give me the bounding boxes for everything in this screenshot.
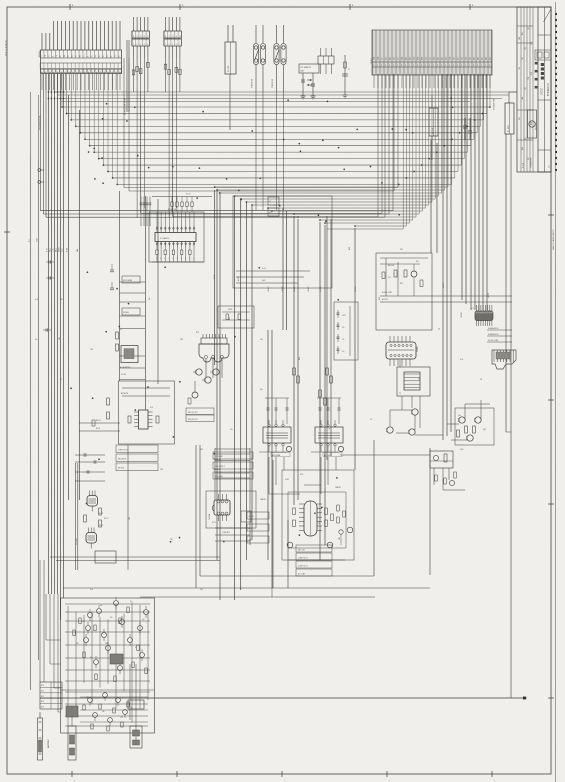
connector CN101 pins: [40, 21, 122, 74]
bus wire: [108, 171, 458, 173]
svg-text:B+ 6V: B+ 6V: [262, 268, 266, 270]
bus wire: [103, 164, 461, 166]
IC6 dark body: [110, 654, 123, 664]
transistors right-mid: [387, 409, 481, 441]
svg-text:5: 5: [425, 65, 426, 67]
svg-text:3: 3: [381, 65, 382, 67]
svg-text:0.01: 0.01: [90, 589, 93, 591]
svg-text:R 4.7K: R 4.7K: [99, 513, 103, 515]
bus wire: [99, 158, 465, 160]
svg-text:2: 2: [377, 65, 378, 67]
svg-text:WGB: WGB: [418, 57, 420, 60]
sub-board box right: [376, 253, 432, 330]
svg-text:BY: BY: [91, 55, 93, 57]
svg-text:0.01: 0.01: [35, 299, 38, 301]
diode-resistor drops under CN102 CN103: [132, 58, 181, 92]
svg-text:R: R: [177, 258, 178, 260]
bus wire: [85, 138, 474, 140]
left bus vertical: [54, 74, 56, 594]
svg-text:100: 100: [100, 605, 103, 607]
svg-text:R: R: [193, 258, 194, 260]
battery board box: [61, 598, 155, 733]
svg-text:4.7: 4.7: [370, 419, 372, 421]
svg-text:2SB: 2SB: [105, 643, 108, 645]
svg-text:MIC MUTE: MIC MUTE: [118, 459, 126, 461]
wires into battery board: [40, 560, 61, 712]
center-bottom inner box: [288, 492, 346, 548]
bus wire top: [57, 94, 509, 96]
svg-text:7: 7: [469, 65, 470, 67]
svg-text:BT0: BT0: [41, 685, 44, 687]
bus drop: [470, 74, 472, 146]
bus wire: [67, 112, 487, 114]
bus wire: [124, 187, 398, 189]
bottom border tick: [72, 771, 76, 782]
bus run wire: [268, 207, 426, 209]
svg-text:4.7: 4.7: [135, 647, 137, 649]
bus vertical: [482, 74, 484, 310]
svg-text:MADE IN JAPAN SANYO: MADE IN JAPAN SANYO: [552, 229, 555, 250]
svg-text:4: 4: [457, 65, 458, 67]
right border tick: [548, 399, 554, 401]
bus run drop: [405, 74, 407, 226]
svg-text:2SC1384: 2SC1384: [209, 514, 211, 520]
svg-text:TO MAIN PWB: TO MAIN PWB: [493, 98, 496, 110]
net labels left bus: [29, 238, 80, 252]
svg-text:0.01: 0.01: [460, 359, 463, 361]
bus vertical: [442, 74, 444, 440]
svg-text:COMP OUT 1: COMP OUT 1: [298, 558, 308, 560]
IC2 dark body: [475, 305, 493, 326]
bus drop: [392, 74, 394, 211]
svg-text:6: 6: [465, 65, 466, 67]
bus drop: [483, 74, 485, 120]
connector CN104 wire down: [229, 74, 231, 130]
vertical x430: [429, 448, 431, 575]
svg-text:DC IN DET: DC IN DET: [215, 476, 223, 478]
IC1 bottom rail: [152, 261, 204, 263]
svg-text:RY1: RY1: [196, 332, 199, 334]
svg-text:K.SENSOR IN: K.SENSOR IN: [488, 334, 499, 336]
svg-text:WRG: WRG: [422, 57, 424, 60]
svg-text:10K: 10K: [76, 643, 79, 645]
bus vertical: [324, 225, 326, 545]
bus run wire: [294, 213, 419, 215]
svg-text:220: 220: [170, 539, 173, 541]
drops to IC1 area: [137, 92, 176, 218]
connector CN102: [132, 17, 150, 58]
sensor unit cluster: [299, 64, 319, 99]
svg-text:47u: 47u: [230, 429, 233, 431]
cluster parts right: [435, 472, 457, 486]
svg-text:R: R: [160, 258, 161, 260]
switch drops: [256, 92, 303, 210]
IC1 pin wires: [157, 212, 194, 226]
labels left of IC5: [247, 512, 269, 543]
svg-text:REG 5V OUT: REG 5V OUT: [188, 412, 198, 414]
bus run wire: [235, 195, 439, 197]
connector CN205 body: [505, 103, 514, 134]
bus drop: [397, 74, 399, 188]
horizontal y560: [288, 559, 345, 561]
svg-text:4.7: 4.7: [60, 379, 62, 381]
svg-text:YB: YB: [99, 55, 101, 57]
parts around IC5: [287, 508, 353, 548]
bus wire: [113, 177, 455, 179]
connector CN104 body: [225, 42, 236, 74]
svg-text:2: 2: [137, 44, 138, 46]
svg-text:R42 10K: R42 10K: [214, 469, 221, 471]
svg-text:SP OUT: SP OUT: [249, 516, 255, 518]
svg-text:R 4.7K: R 4.7K: [104, 518, 108, 520]
svg-text:5: 5: [389, 65, 390, 67]
right transistor box: [455, 408, 494, 445]
bus riser: [123, 58, 125, 188]
bus vertical: [219, 192, 221, 600]
transformer block T4 Q9: [311, 398, 344, 457]
top border tick L: [180, 4, 184, 10]
right border tick: [548, 503, 554, 505]
bus drop: [486, 74, 488, 113]
resistors above IC1: [171, 197, 193, 213]
bus wire: [62, 106, 490, 108]
center-bottom boundary box: [282, 470, 354, 560]
svg-text:NC RD BL WH YE GR: NC RD BL WH YE GR: [125, 97, 127, 115]
svg-text:BT2: BT2: [41, 696, 44, 698]
bus vertical: [465, 74, 467, 304]
svg-text:47u: 47u: [35, 339, 38, 341]
pin drop deep: [45, 74, 47, 217]
battery board inner line: [61, 689, 155, 691]
bus riser: [84, 74, 86, 139]
bus vertical: [319, 222, 321, 560]
svg-text:1: 1: [373, 65, 374, 67]
battery B1 symbol: [38, 712, 43, 760]
bus wire top: [59, 98, 502, 100]
svg-text:9: 9: [405, 65, 406, 67]
svg-text:0.01: 0.01: [299, 357, 301, 360]
left bus junction dots: [48, 91, 64, 99]
svg-text:+B REG: +B REG: [461, 311, 463, 318]
wire CN205 down 2: [505, 134, 507, 432]
svg-text:T1: T1: [399, 393, 401, 395]
relay RY1 body: [199, 334, 229, 362]
right border tick: [548, 697, 554, 699]
bus drop: [479, 74, 481, 126]
svg-text:IC3: IC3: [150, 407, 153, 409]
svg-text:CN301: CN301: [417, 347, 419, 352]
svg-text:C21: C21: [388, 277, 391, 279]
label rows mid-left: [116, 445, 158, 471]
svg-text:DET OUT: DET OUT: [298, 550, 305, 552]
svg-text:IC2: IC2: [471, 308, 474, 310]
bus riser: [61, 74, 63, 107]
bus wire low: [46, 216, 385, 218]
svg-text:REG 5V OUT: REG 5V OUT: [188, 419, 198, 421]
svg-text:IC1 LA4520: IC1 LA4520: [160, 237, 169, 240]
svg-text:B: B: [133, 36, 134, 38]
bus wire: [90, 145, 471, 147]
svg-text:5V REG: 5V REG: [123, 312, 130, 314]
svg-text:4.7: 4.7: [250, 539, 252, 541]
svg-text:7: 7: [397, 65, 398, 67]
left mid box: [95, 551, 116, 563]
svg-text:R: R: [164, 258, 165, 260]
svg-text:BB3: BB3: [519, 117, 521, 120]
svg-text:DC IN DET: DC IN DET: [215, 456, 223, 458]
svg-text:+B REG: +B REG: [355, 285, 357, 292]
left bus vertical: [68, 95, 70, 500]
svg-text:WYL: WYL: [458, 57, 460, 60]
svg-text:Q31: Q31: [458, 415, 461, 417]
relay RY1 wires: [206, 359, 222, 378]
svg-text:3CB: 3CB: [519, 67, 521, 70]
svg-text:9: 9: [477, 65, 478, 67]
regulator cluster: [380, 258, 512, 302]
CN101 pin drop stubs: [42, 74, 120, 91]
top border tick L: [70, 4, 74, 10]
svg-text:47u: 47u: [342, 351, 345, 353]
switch S2: [274, 25, 286, 92]
svg-text:2: 2: [485, 65, 486, 67]
svg-text:R: R: [156, 258, 157, 260]
svg-text:R41 4.7K: R41 4.7K: [214, 459, 222, 461]
IC4 bottom rails: [215, 528, 250, 541]
off-page hooks: [38, 169, 44, 184]
run riser: [140, 92, 142, 214]
svg-text:RWK: RWK: [486, 57, 488, 60]
svg-text:POWER SW: POWER SW: [272, 78, 274, 88]
left bus vertical: [51, 74, 53, 594]
wire CN205 up: [509, 92, 517, 103]
wire far-left top: [30, 92, 32, 155]
svg-text:47u: 47u: [60, 299, 63, 301]
svg-text:K.SENSOR IN: K.SENSOR IN: [488, 328, 499, 330]
svg-text:1: 1: [409, 65, 410, 67]
svg-text:RGK: RGK: [386, 57, 388, 60]
svg-text:YRR: YRR: [454, 57, 456, 60]
bus run wire: [327, 228, 403, 230]
top border tick L: [470, 4, 474, 10]
IC1 pin wires bottom: [156, 247, 194, 262]
svg-text:+B REG: +B REG: [320, 285, 322, 292]
svg-text:BYY: BYY: [398, 57, 400, 60]
bus run drop: [444, 74, 446, 190]
svg-text:6: 6: [429, 65, 430, 67]
bus vertical: [214, 190, 216, 365]
IC4 quad body: [212, 494, 230, 524]
parts column mid-top: [342, 55, 350, 98]
bus vertical: [234, 196, 236, 600]
svg-text:COMP OUT 1: COMP OUT 1: [298, 566, 308, 568]
border outer right line: [555, 2, 557, 782]
svg-text:C1: C1: [348, 69, 350, 71]
svg-text:B.CHG CONT: B.CHG CONT: [382, 292, 392, 294]
CN201 pin drop stubs: [374, 74, 490, 88]
extension box parts: [80, 693, 148, 731]
bus vertical: [450, 74, 452, 432]
svg-text:1: 1: [481, 65, 482, 67]
svg-text:R9 1K: R9 1K: [96, 428, 100, 430]
svg-text:RL: RL: [111, 55, 113, 57]
bus drop: [384, 74, 386, 217]
bus riser: [128, 58, 130, 191]
svg-text:47u: 47u: [130, 601, 133, 603]
cluster above relay: [218, 306, 254, 328]
connector CN201 pins: [373, 30, 492, 75]
bus run wire: [246, 201, 432, 203]
bus run drop: [437, 74, 439, 196]
lines y557: [50, 557, 220, 561]
center box rails: [236, 268, 310, 283]
bus riser: [112, 74, 114, 178]
bus run drop: [428, 74, 430, 205]
svg-text:0.01: 0.01: [379, 297, 381, 300]
svg-text:MIC AMP: MIC AMP: [75, 537, 78, 545]
svg-text:IC5: IC5: [319, 521, 321, 524]
svg-text:BT90R#2-31: BT90R#2-31: [548, 82, 550, 96]
bottom border tick: [387, 771, 391, 782]
svg-text:B+ CONT: B+ CONT: [298, 574, 305, 576]
bus run wire: [272, 210, 422, 212]
svg-text:4: 4: [421, 65, 422, 67]
transistors Q10 Q11 left: [76, 445, 128, 570]
IC5 oval body: [299, 501, 322, 536]
svg-text:GY: GY: [48, 55, 50, 57]
svg-text:+B SW: +B SW: [214, 275, 216, 280]
resistors on verticals: [293, 368, 333, 405]
left bus vertical: [63, 74, 65, 598]
title block stamp box: [528, 110, 537, 138]
svg-text:BATTERY: BATTERY: [47, 738, 50, 748]
svg-text:B.T SENSOR: B.T SENSOR: [301, 67, 312, 69]
bus vertical: [436, 143, 438, 253]
svg-text:KKB: KKB: [462, 57, 464, 60]
svg-text:0.01: 0.01: [229, 317, 231, 320]
transistor Q12: [188, 381, 198, 404]
bus run drop: [412, 74, 414, 220]
svg-text:R: R: [169, 258, 170, 260]
bus run drop: [421, 74, 423, 211]
net labels vertical: [214, 275, 490, 318]
svg-text:YYL: YYL: [382, 57, 384, 60]
bus wire: [117, 183, 451, 185]
bus riser: [66, 74, 68, 113]
svg-text:R: R: [185, 258, 186, 260]
bus wire low: [44, 213, 390, 215]
op-amp IC1 body: [155, 226, 196, 247]
svg-text:4: 4: [176, 44, 177, 46]
svg-text:COMP M R: COMP M R: [222, 532, 231, 534]
left bus vertical: [60, 74, 62, 620]
svg-text:1B1: 1B1: [528, 27, 530, 30]
bus riser: [102, 74, 104, 165]
svg-text:3: 3: [489, 65, 490, 67]
bus run wire: [215, 186, 448, 188]
title marks extra: [535, 62, 551, 168]
battery table: [40, 682, 62, 709]
vertical x288: [287, 520, 289, 588]
svg-text:R: R: [173, 258, 174, 260]
relay box RB1: [430, 451, 453, 468]
left bus vertical: [78, 110, 80, 500]
svg-text:BWL: BWL: [406, 57, 408, 60]
arrow mark a2: [307, 84, 312, 86]
right transistor labels: [458, 415, 486, 451]
connector CN301 scalloped: [386, 336, 416, 366]
sub-board box left-mid: [119, 381, 175, 444]
bottom border tick: [282, 771, 286, 782]
bus vertical: [245, 202, 247, 560]
wire y597: [140, 596, 375, 598]
connector CN104 pin up: [227, 25, 229, 42]
svg-text:2: 2: [413, 65, 414, 67]
bottom cluster parts: [128, 664, 144, 748]
connector CN105: [318, 48, 334, 74]
title block stamp marks: [535, 50, 551, 60]
connector CN103: [164, 17, 182, 58]
svg-text:9: 9: [441, 65, 442, 67]
svg-text:YG: YG: [76, 55, 78, 57]
svg-text:BGG: BGG: [446, 57, 448, 60]
svg-text:BT3: BT3: [41, 701, 44, 703]
battery board parts: [65, 597, 150, 726]
svg-text:3: 3: [417, 65, 418, 67]
svg-text:R: R: [181, 258, 182, 260]
bus vertical: [282, 208, 284, 330]
bus drop: [489, 74, 491, 107]
bus run wire: [252, 204, 429, 206]
rails above IC4: [214, 448, 250, 545]
svg-text:+B REG: +B REG: [282, 285, 284, 292]
bus wire: [76, 125, 481, 127]
component J1 wire up: [431, 95, 433, 108]
parts right of IC5: [337, 505, 346, 545]
svg-text:CCB: CCB: [531, 42, 533, 45]
svg-text:8: 8: [401, 65, 402, 67]
wire x272 ext: [271, 588, 273, 597]
pin drop deep: [40, 74, 42, 211]
bus run drop: [447, 74, 449, 187]
svg-text:R 4.7K: R 4.7K: [99, 525, 103, 527]
bus vertical: [267, 330, 269, 560]
title block frame: [517, 7, 551, 172]
svg-text:UNIT: UNIT: [301, 71, 305, 73]
bus vertical: [446, 74, 448, 436]
svg-text:0.022: 0.022: [342, 315, 346, 317]
right border tick: [548, 214, 554, 216]
svg-text:10 2 1 1 2 3 4 5 6: 10 2 1 1 2 3 4 5 6: [6, 40, 8, 56]
bus vertical: [478, 74, 480, 310]
svg-text:SW POWER: SW POWER: [123, 280, 133, 282]
svg-text:RRB: RRB: [466, 57, 468, 60]
svg-text:R: R: [189, 258, 190, 260]
svg-text:CN201: CN201: [371, 58, 373, 64]
svg-text:1: 1: [445, 65, 446, 67]
svg-text:1K: 1K: [130, 707, 132, 709]
vertical x273: [272, 460, 274, 588]
bus drop: [467, 74, 469, 152]
horizontal y588: [63, 587, 430, 589]
svg-text:BT1: BT1: [41, 690, 44, 692]
transistors Q5 Q6 Q7: [193, 369, 219, 383]
run drop: [377, 74, 379, 217]
right edge dash column: [555, 13, 557, 171]
bus run drop: [434, 74, 436, 199]
svg-text:R12 R13 R14: R12 R13 R14: [168, 209, 177, 211]
svg-text:0.01: 0.01: [82, 621, 85, 623]
IC4 boundary box: [206, 491, 256, 528]
